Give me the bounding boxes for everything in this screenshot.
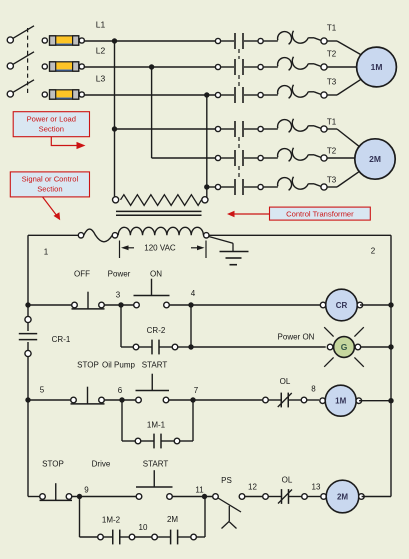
label 12 [248, 483, 257, 492]
wire PS to OL [245, 496, 263, 498]
svg-text:T1: T1 [327, 24, 337, 33]
coil 2M [321, 480, 364, 513]
svg-text:STOP: STOP [77, 361, 99, 370]
wire control bus to right rail [209, 234, 391, 236]
svg-text:START: START [143, 460, 169, 469]
label T3 (2M) [327, 176, 337, 185]
label Power [108, 270, 131, 279]
label OL rung3 [282, 476, 293, 485]
wire T2 lead to motor [327, 66, 357, 68]
wire right rail [390, 235, 392, 496]
contact 1M pole 3 [215, 87, 263, 103]
wire 1M coil to right rail [359, 398, 394, 403]
label T2 (1M) [327, 50, 337, 59]
svg-text:PS: PS [221, 476, 232, 485]
fuse control circuit (wavy) [78, 229, 112, 242]
wire pilot light to right rail [361, 344, 394, 349]
ground (transformer secondary) [209, 237, 249, 265]
svg-text:5: 5 [40, 386, 45, 395]
wire 1M-2 to 2M contact [135, 536, 152, 538]
svg-text:Power or Load: Power or Load [27, 115, 76, 124]
svg-text:9: 9 [84, 486, 89, 495]
relay coil CR [320, 289, 362, 321]
svg-text:Section: Section [37, 185, 62, 194]
svg-text:OL: OL [280, 377, 291, 386]
label rail 2 [371, 247, 376, 256]
node left rail rung1 junction [25, 302, 30, 307]
node bus A to 2M row1 junction [112, 126, 117, 131]
svg-text:T3: T3 [327, 176, 337, 185]
wire vertical bus from L1 to transformer primary [114, 41, 116, 198]
wire 2M row2 feed [152, 157, 216, 159]
svg-text:120 VAC: 120 VAC [144, 244, 176, 253]
wire START to OL [169, 399, 263, 401]
label OL rung2 [280, 377, 291, 386]
svg-text:13: 13 [312, 483, 321, 492]
svg-text:2: 2 [371, 247, 376, 256]
control transformer primary winding [113, 195, 208, 206]
contact OL (NC) rung3 [263, 489, 308, 504]
label 1M-1 [147, 421, 166, 430]
contact 1M-1 (NO) [135, 434, 180, 449]
svg-text:2M: 2M [369, 154, 381, 164]
control transformer secondary winding [112, 227, 209, 238]
mechanical link of disconnect (dashed) [27, 28, 29, 94]
contact 2M aux (NO) [152, 530, 197, 545]
label L2 [96, 46, 106, 56]
label ON [150, 270, 162, 279]
overload heater 1M pole 1 [263, 31, 321, 45]
wire 1M-1 branch [122, 400, 193, 441]
terminal T3 of 2M [321, 184, 327, 190]
node 9 [77, 486, 89, 500]
mechanical link of contactor 1M (dashed) [238, 49, 240, 87]
pushbutton START oil pump (NO) [136, 374, 170, 403]
node L1 tap junction [112, 38, 117, 43]
motor 2M [355, 139, 395, 179]
wire rung1 left [28, 304, 72, 306]
svg-text:1M-1: 1M-1 [147, 421, 166, 430]
disconnect switch pole L3 [7, 80, 34, 97]
svg-text:1M: 1M [335, 397, 346, 406]
label CR-2 [147, 326, 166, 335]
wire START to PS [172, 496, 213, 498]
wire T3 lead to motor [327, 79, 361, 95]
terminal T1 of 2M [321, 126, 327, 132]
svg-text:1: 1 [44, 248, 49, 257]
node 4 [188, 289, 195, 308]
node 6 [118, 386, 125, 403]
label L1 [96, 20, 106, 30]
coil 1M [320, 385, 362, 416]
wire T2 lead to motor [327, 157, 355, 159]
node 11 [195, 486, 207, 500]
svg-text:Power ON: Power ON [278, 333, 315, 342]
wire branch to pilot light [191, 346, 326, 348]
svg-text:6: 6 [118, 386, 123, 395]
svg-text:T2: T2 [327, 147, 337, 156]
pushbutton OFF (NC) [72, 292, 105, 309]
overload heater 2M pole 1 [263, 119, 321, 133]
wire OFF to node 3 [104, 304, 133, 306]
svg-text:11: 11 [195, 486, 204, 495]
svg-text:CR-1: CR-1 [52, 335, 71, 344]
motor 1M [357, 47, 397, 87]
contact CR-2 (NO) [133, 340, 178, 355]
svg-text:10: 10 [139, 523, 148, 532]
arrow from Control Transformer box [227, 211, 270, 218]
wire OL to 1M coil [307, 399, 319, 401]
wire 2M row1 feed [115, 128, 216, 130]
wire STOP to node 6 [104, 399, 135, 401]
fuse L2 [42, 62, 84, 71]
svg-text:CR-2: CR-2 [147, 326, 166, 335]
wire CR to right rail [360, 302, 394, 307]
contact OL (NC) rung2 [263, 393, 307, 408]
label box Control Transformer [270, 207, 371, 220]
terminal T2 of 1M [321, 64, 327, 70]
arrow from Signal box [43, 197, 61, 220]
contact CR-1 (vertical, on left rail) [19, 316, 37, 356]
contact 1M-2 (NO) [98, 530, 135, 545]
label T1 (2M) [327, 118, 337, 127]
overload heater 2M pole 3 [263, 177, 321, 191]
label CR-1 [52, 335, 71, 344]
svg-text:G: G [341, 342, 348, 352]
svg-text:1M-2: 1M-2 [102, 516, 121, 525]
svg-text:1M: 1M [371, 62, 383, 72]
svg-text:2M: 2M [337, 492, 348, 501]
pushbutton START drive (NO) [136, 470, 173, 499]
label rail 1 [44, 248, 49, 257]
contact 2M pole 1 [215, 121, 263, 137]
svg-text:ON: ON [150, 270, 162, 279]
svg-text:L2: L2 [96, 46, 106, 56]
label STOP Oil Pump START [77, 361, 167, 370]
contact 2M pole 3 [215, 179, 263, 195]
label L3 [96, 74, 106, 84]
label 1M-2 [102, 516, 121, 525]
svg-text:START: START [142, 361, 168, 370]
svg-text:Signal or Control: Signal or Control [22, 175, 79, 184]
node 3 [116, 291, 124, 308]
wire STOP to node 9 [72, 496, 136, 498]
svg-text:2M: 2M [167, 515, 178, 524]
svg-text:Section: Section [39, 125, 64, 134]
svg-text:L3: L3 [96, 74, 106, 84]
wire vertical bus from L2 to 2M contactor [151, 67, 153, 158]
terminal T2 of 2M [321, 155, 327, 161]
wire vertical bus from L3 to transformer primary right [206, 95, 208, 198]
wire node ON to node 4 [169, 304, 321, 306]
node bus C to 2M row3 junction [204, 184, 209, 189]
svg-text:OL: OL [282, 476, 293, 485]
wire node3 drop to CR-2 branch [121, 305, 133, 347]
label 10 [139, 523, 148, 532]
svg-text:8: 8 [311, 385, 316, 394]
overload heater 1M pole 2 [263, 57, 321, 71]
wire control bus left corner [28, 234, 79, 236]
overload heater 2M pole 2 [263, 148, 321, 162]
label 2M aux [167, 515, 178, 524]
svg-text:CR: CR [336, 301, 348, 310]
wire left rail [27, 235, 29, 496]
label Power ON [278, 333, 315, 342]
contact 1M pole 1 [215, 33, 263, 49]
contact 2M pole 2 [215, 150, 263, 166]
wire CR-2 to node4 drop [178, 305, 191, 347]
svg-text:12: 12 [248, 483, 257, 492]
label 120 VAC dimension [120, 241, 207, 259]
wire L1 to contactor [84, 40, 215, 43]
label box Signal or Control Section [10, 172, 89, 197]
node 5 [25, 386, 44, 403]
label 8 [311, 385, 316, 394]
arrow from Power box [51, 137, 85, 149]
wire 2M row3 feed [207, 186, 216, 188]
fuse L3 [42, 90, 84, 99]
terminal T3 of 1M [321, 92, 327, 98]
wire L3 to contactor [84, 94, 215, 97]
wire rung2 left [28, 399, 71, 401]
contact 1M pole 2 [215, 59, 263, 75]
svg-text:4: 4 [191, 289, 196, 298]
label PS [221, 476, 232, 485]
svg-text:3: 3 [116, 291, 121, 300]
svg-text:Drive: Drive [92, 460, 111, 469]
node 7 [190, 386, 198, 403]
wire L2 to contactor [84, 66, 215, 69]
svg-text:7: 7 [194, 386, 199, 395]
svg-text:T1: T1 [327, 118, 337, 127]
fuse L1 [42, 36, 84, 45]
svg-text:L1: L1 [96, 20, 106, 30]
node L3 tap junction [204, 92, 209, 97]
wire holding branch rung3 [80, 497, 206, 538]
wire T3 lead to motor [327, 172, 359, 187]
label STOP Drive START [42, 460, 168, 469]
wire OL to 2M coil [307, 496, 322, 498]
control transformer core [116, 211, 202, 215]
label T1 (1M) [327, 24, 337, 33]
disconnect switch pole L2 [7, 52, 34, 69]
wire T1 lead to motor [327, 129, 359, 146]
svg-text:Oil Pump: Oil Pump [102, 361, 135, 370]
label T2 (2M) [327, 147, 337, 156]
terminal T1 of 1M [321, 38, 327, 44]
label box Power or Load Section [13, 112, 89, 137]
pilot lamp G [324, 327, 364, 367]
node junction at 4 drop [188, 344, 193, 349]
svg-text:T3: T3 [327, 78, 337, 87]
wire 2M coil to right rail corner [362, 496, 391, 498]
label T3 (1M) [327, 78, 337, 87]
svg-text:T2: T2 [327, 50, 337, 59]
wire T1 lead to motor [327, 41, 361, 55]
svg-text:OFF: OFF [74, 270, 90, 279]
pushbutton STOP oil pump (NC) [71, 387, 105, 404]
pressure switch PS [213, 494, 245, 529]
svg-text:STOP: STOP [42, 460, 64, 469]
disconnect switch pole L1 [7, 26, 34, 43]
wire rung3 left corner [28, 496, 40, 498]
label 13 [312, 483, 321, 492]
svg-text:Power: Power [108, 270, 131, 279]
label OFF [74, 270, 90, 279]
node L2 tap junction [149, 64, 154, 69]
svg-text:Control Transformer: Control Transformer [286, 210, 354, 219]
pushbutton STOP drive (NC) [40, 483, 73, 500]
pushbutton Power ON (NO) [134, 279, 170, 308]
mechanical link of contactor 2M (dashed) [238, 137, 240, 179]
overload heater 1M pole 3 [263, 85, 321, 99]
